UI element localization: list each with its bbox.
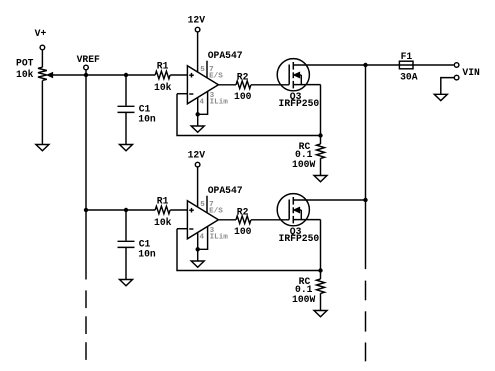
wire pin 3 to pin 4 node [198, 91, 208, 114]
wire pin 4 to ground [197, 98, 199, 126]
wire VREF bus continuation (dashed) [85, 290, 87, 308]
wire drain to bus [293, 64, 453, 66]
wire pin 7 stub (ch2) [206, 196, 208, 213]
svg-text:100: 100 [234, 91, 252, 102]
wire drain bus vertical (solid) [365, 65, 367, 269]
wire R1 to op-amp + (ch2) [170, 209, 187, 211]
svg-text:10k: 10k [154, 82, 172, 93]
wire op-amp output (ch2) [218, 219, 236, 221]
ground (RC) [314, 176, 327, 182]
capacitor C1 10n [118, 105, 135, 107]
terminal 12V (ch2) [195, 162, 200, 167]
svg-text:R2: R2 [237, 72, 249, 83]
svg-text:5: 5 [200, 201, 205, 209]
svg-text:12V: 12V [188, 14, 206, 25]
wire op-amp inverting input stub (ch2) [177, 228, 187, 230]
wire feedback loop (ch2) [177, 229, 321, 271]
svg-text:IRFP250: IRFP250 [279, 98, 320, 109]
wire POT to ground [41, 81, 43, 145]
junction source node [318, 133, 322, 137]
junction VREF node (ch2) [84, 208, 88, 212]
svg-text:100W: 100W [292, 159, 315, 170]
resistor R2 100 (ch2) [236, 216, 251, 224]
terminal 12V [195, 27, 200, 32]
wire C1 stem [125, 75, 127, 106]
wire R2 to gate [251, 84, 289, 86]
ground (RC) (ch2) [314, 311, 327, 317]
wire V+ to POT [41, 50, 43, 67]
wire pin 4 to ground (ch2) [197, 233, 199, 261]
svg-text:POT: POT [16, 58, 34, 69]
wire drain to bus (ch2) [293, 199, 365, 201]
potentiometer POT 10k [38, 67, 47, 80]
resistor R1 10k [155, 71, 170, 79]
wire VREF bus (solid) [85, 75, 87, 280]
junction VREF node [84, 73, 88, 77]
svg-text:OPA547: OPA547 [208, 50, 243, 61]
ground (op-amp) [191, 126, 204, 132]
svg-text:R1: R1 [157, 196, 169, 207]
svg-text:30A: 30A [400, 72, 418, 83]
wire VREF stem [85, 70, 87, 75]
svg-text:VREF: VREF [77, 54, 100, 65]
svg-text:IRFP250: IRFP250 [279, 233, 320, 244]
ground (op-amp) (ch2) [191, 261, 204, 267]
junction drain bus [363, 63, 367, 67]
wire R1 to op-amp + [170, 74, 187, 76]
wire op-amp output [218, 84, 236, 86]
svg-text:10n: 10n [138, 113, 156, 124]
resistor R2 100 [236, 81, 251, 89]
op-amp U1 OPA547 [187, 66, 218, 104]
wire pin 3 to pin 4 node (ch2) [198, 226, 208, 249]
node VREF terminal [84, 65, 89, 70]
ground (POT) [36, 145, 49, 151]
svg-text:10k: 10k [16, 69, 34, 80]
junction pin4 node [196, 112, 200, 116]
terminal V+ [40, 45, 45, 50]
wire drain bus continuation (dashed) [365, 281, 367, 301]
wire pin 7 stub [206, 61, 208, 78]
wire 12V supply pin 5 [197, 32, 199, 72]
svg-text:ILim: ILim [210, 233, 229, 241]
svg-text:12V: 12V [188, 149, 206, 160]
junction source node (ch2) [318, 268, 322, 272]
op-amp U2 OPA547 [187, 201, 218, 239]
wire 12V supply pin 5 (ch2) [197, 167, 199, 207]
wire source down (ch2) [320, 220, 322, 271]
resistor R1 10k (ch2) [155, 206, 170, 214]
transistor Q3 IRFP250 (ch2) [277, 194, 309, 226]
junction drain bus (ch2) [363, 198, 367, 202]
wire C1 to ground [125, 112, 127, 144]
wire main input rail ch1 [48, 74, 156, 76]
svg-text:E/S: E/S [209, 208, 223, 216]
wire RC to ground (ch2) [320, 293, 322, 310]
wire feedback loop [177, 94, 321, 136]
svg-text:100: 100 [234, 226, 252, 237]
wire source down [320, 85, 322, 136]
svg-text:VIN: VIN [462, 67, 480, 78]
wire C1 stem (ch2) [125, 210, 127, 241]
wire op-amp inverting input stub [177, 93, 187, 95]
svg-text:V+: V+ [35, 28, 47, 39]
junction C1 node (ch2) [124, 208, 128, 212]
svg-text:R1: R1 [157, 61, 169, 72]
capacitor C1 10n (ch2) [118, 240, 135, 242]
svg-text:OPA547: OPA547 [208, 185, 243, 196]
svg-text:ILim: ILim [210, 98, 229, 106]
junction C1 node [124, 73, 128, 77]
ground (VIN) [434, 94, 447, 100]
wire R2 to gate (ch2) [251, 219, 289, 221]
svg-text:4: 4 [200, 98, 205, 106]
wire main input rail ch2 [86, 209, 155, 211]
resistor RC 0.1 100W [320, 136, 322, 145]
wire RC to ground [320, 158, 322, 175]
svg-text:E/S: E/S [209, 73, 223, 81]
junction pin4 node (ch2) [196, 247, 200, 251]
svg-text:R2: R2 [237, 207, 249, 218]
fuse F1 30A [399, 61, 413, 69]
terminal VIN- [454, 75, 459, 80]
svg-text:F1: F1 [401, 51, 413, 62]
wire VIN- to ground [441, 78, 455, 95]
ground (C1) [120, 145, 133, 151]
svg-text:5: 5 [200, 66, 205, 74]
wire C1 to ground (ch2) [125, 247, 127, 279]
ground (C1) (ch2) [120, 280, 133, 286]
resistor RC 0.1 100W (ch2) [320, 271, 322, 280]
svg-text:10k: 10k [154, 217, 172, 228]
svg-text:100W: 100W [292, 294, 315, 305]
transistor Q3 IRFP250 [277, 59, 309, 91]
terminal VIN+ [454, 63, 459, 68]
svg-text:4: 4 [200, 233, 205, 241]
svg-text:10n: 10n [138, 248, 156, 259]
